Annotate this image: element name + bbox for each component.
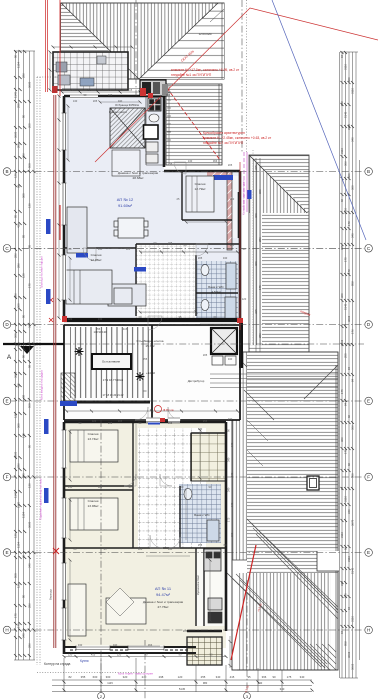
svg-text:360: 360 [347,173,351,178]
room labels [44,32,225,666]
svg-text:255: 255 [201,675,206,679]
blue label boxes left margin [44,219,160,503]
svg-text:360: 360 [254,213,258,218]
svg-text:F: F [6,475,9,480]
svg-text:3110: 3110 [347,556,351,562]
svg-text:340: 340 [78,643,83,647]
apartment 11 floor [64,422,226,665]
right margin smudges ap11 [227,429,235,537]
svg-text:175: 175 [287,675,292,679]
svg-text:255: 255 [168,162,173,166]
svg-text:96: 96 [347,462,351,466]
svg-text:95: 95 [28,244,32,248]
svg-text:255: 255 [344,353,348,358]
svg-text:1154: 1154 [22,512,26,518]
svg-text:5145: 5145 [344,111,348,118]
svg-text:120: 120 [126,247,131,251]
svg-text:176: 176 [351,329,355,334]
svg-text:286: 286 [28,643,32,648]
svg-text:958: 958 [340,101,344,106]
svg-text:елемент Н, +17.0м², сключено +: елемент Н, +17.0м², сключено +0.95, кв.2… [171,68,240,72]
red vertical regulation lines [45,0,47,92]
dark utility block above apartment [140,80,168,96]
svg-text:340: 340 [223,256,228,260]
svg-text:3110: 3110 [344,64,348,70]
svg-text:B: B [5,169,8,174]
svg-text:Подземен гараж контур на ниво: Подземен гараж контур на ниво [39,478,43,520]
svg-text:340: 340 [22,473,26,478]
svg-text:366: 366 [213,159,218,163]
svg-text:елемент Н, +2.45м², сключено +: елемент Н, +2.45м², сключено +0.63, кв.2… [203,136,272,140]
svg-text:Кулообразен архитектурен: Кулообразен архитектурен [203,131,245,135]
svg-text:360: 360 [351,473,355,478]
svg-text:3675: 3675 [351,519,355,526]
svg-text:205: 205 [28,123,32,128]
stair core [61,320,338,420]
svg-text:360: 360 [14,333,18,338]
svg-text:175: 175 [230,502,234,507]
svg-text:90: 90 [22,314,26,318]
svg-text:415: 415 [128,88,133,92]
svg-text:286: 286 [258,333,262,338]
svg-text:205: 205 [228,163,233,167]
svg-text:1145: 1145 [14,92,18,98]
svg-text:B: B [367,169,370,174]
svg-text:Баня с WC: Баня с WC [194,513,210,517]
svg-text:286: 286 [14,293,18,298]
svg-text:3110: 3110 [340,532,344,538]
svg-text:415: 415 [91,653,96,657]
svg-text:386: 386 [22,153,26,158]
red circle marker near stair [155,406,162,413]
svg-text:98: 98 [28,364,32,368]
svg-text:360: 360 [351,185,355,190]
svg-text:95: 95 [14,214,18,218]
svg-text:17.9 16.77/30см: 17.9 16.77/30см [103,378,124,382]
svg-text:360: 360 [254,261,258,266]
svg-text:340: 340 [258,681,263,685]
svg-text:255: 255 [143,357,148,361]
svg-text:120: 120 [68,317,73,321]
svg-text:175: 175 [28,283,32,288]
magenta boundary lines [243,152,245,212]
svg-text:3665: 3665 [28,81,32,88]
tower roof right hip triangle [139,3,224,79]
svg-text:300: 300 [106,675,111,679]
svg-text:Кота входна площадка: Кота входна площадка [40,370,44,400]
svg-text:94: 94 [347,606,351,610]
svg-text:340: 340 [168,547,173,551]
svg-text:13.74м²: 13.74м² [88,437,99,441]
svg-text:360: 360 [17,423,21,428]
svg-text:90: 90 [22,594,26,598]
svg-text:175: 175 [230,442,234,447]
svg-text:340: 340 [227,487,231,492]
svg-text:98: 98 [22,394,26,398]
svg-text:120: 120 [242,297,247,301]
furniture [66,96,222,636]
svg-text:340: 340 [340,581,344,586]
svg-text:90: 90 [22,354,26,358]
svg-text:3110: 3110 [347,124,351,130]
svg-text:Спалня: Спалня [88,432,99,436]
svg-text:Дневна с бокс и трапезария: Дневна с бокс и трапезария [143,600,184,604]
svg-text:340: 340 [28,563,32,568]
svg-text:5145: 5145 [351,567,355,574]
svg-text:82: 82 [68,675,72,679]
svg-text:178: 178 [347,221,351,226]
blue diagonal [272,0,366,240]
svg-text:130: 130 [98,317,103,321]
svg-text:E: E [5,399,8,404]
svg-text:12.79м²: 12.79м² [195,187,206,191]
svg-text:320: 320 [123,675,128,679]
svg-text:415: 415 [123,327,128,331]
svg-text:96: 96 [340,198,344,202]
svg-text:340: 340 [230,197,235,201]
svg-text:130: 130 [14,533,18,538]
svg-text:94: 94 [340,486,344,490]
svg-text:415: 415 [17,223,21,228]
roof notch [317,551,339,571]
svg-text:94.47м²: 94.47м² [156,592,171,597]
red roof annotation diagonals [95,8,378,162]
svg-text:415: 415 [230,675,235,679]
svg-text:340: 340 [227,457,231,462]
svg-text:205: 205 [108,421,113,425]
balcony strip right of bedroom [232,176,240,238]
svg-text:3663: 3663 [347,651,351,658]
svg-text:5145: 5145 [344,303,348,310]
svg-text:120: 120 [178,675,183,679]
svg-text:178: 178 [347,269,351,274]
right dimension chain [340,52,360,678]
svg-text:130: 130 [73,99,78,103]
big lower-right roof [227,352,339,670]
svg-text:255: 255 [17,103,21,108]
svg-text:415: 415 [17,343,21,348]
svg-text:Спалня: Спалня [91,253,102,257]
svg-text:гледайте №7 за ПУП/ПУП: гледайте №7 за ПУП/ПУП [203,141,244,145]
svg-text:340: 340 [351,137,355,142]
svg-text:340: 340 [280,687,285,691]
svg-text:360: 360 [258,189,262,194]
svg-text:Спалня: Спалня [88,499,99,503]
svg-text:286: 286 [28,603,32,608]
svg-text:120: 120 [117,653,122,657]
svg-text:205: 205 [118,419,123,423]
red curve bottom right [231,545,256,660]
door arcs [83,162,208,548]
svg-text:Дневна с бокс и трапезария: Дневна с бокс и трапезария [118,171,159,175]
svg-text:Граница на имот парцел: Граница на имот парцел [40,256,44,288]
svg-text:415: 415 [254,309,258,314]
svg-text:Отбранца 30/50см: Отбранца 30/50см [115,103,139,107]
left dimension chain [14,51,145,673]
svg-text:366: 366 [340,437,344,442]
svg-text:A: A [7,354,12,361]
svg-text:255: 255 [87,88,92,92]
svg-text:360: 360 [17,303,21,308]
svg-text:96: 96 [344,546,348,550]
svg-text:Веранда: Веранда [49,589,53,600]
svg-text:Кота терен - ниво сутерен: Кота терен - ниво сутерен [118,672,153,676]
svg-text:84: 84 [347,366,351,370]
svg-text:286: 286 [22,73,26,78]
magenta rotated notes left margin [39,256,44,520]
svg-text:340: 340 [28,323,32,328]
svg-text:286: 286 [17,263,21,268]
svg-text:175: 175 [230,472,234,477]
svg-text:E: E [367,550,370,555]
svg-text:27.76м²: 27.76м² [158,605,169,609]
corridor tiles ap11 [138,428,206,548]
svg-text:120: 120 [17,583,21,588]
svg-text:H: H [367,628,370,633]
svg-text:286: 286 [258,237,262,242]
svg-text:340: 340 [351,233,355,238]
svg-text:340: 340 [228,357,233,361]
kitchen ap11 [196,548,226,626]
tower roof ridges [61,3,218,79]
svg-text:120: 120 [14,173,18,178]
svg-text:3665: 3665 [14,451,18,458]
svg-text:205: 205 [230,243,235,247]
svg-text:175: 175 [22,433,26,438]
dim line above terrace [50,47,132,90]
svg-text:5145: 5145 [179,687,186,691]
small roof over kitchen wing [166,84,222,165]
walls [64,96,240,654]
svg-text:205: 205 [203,353,208,357]
svg-text:175: 175 [227,517,231,522]
svg-text:90: 90 [22,114,26,118]
svg-text:Кулообразен архитектурен: Кулообразен архитектурен [242,180,246,215]
svg-text:1154: 1154 [17,542,21,548]
svg-text:205: 205 [168,241,173,245]
svg-text:298: 298 [159,675,164,679]
bottom terrace tiles [187,637,222,665]
svg-text:84: 84 [351,378,355,382]
svg-text:340: 340 [216,675,221,679]
svg-text:415: 415 [254,165,258,170]
top-left terrace tiles [53,52,128,90]
svg-text:91.60м²: 91.60м² [118,203,133,208]
svg-text:3665: 3665 [14,131,18,138]
svg-text:120: 120 [14,413,18,418]
micro dimension texts [68,93,247,647]
svg-text:Кухня: Кухня [80,659,89,663]
extra interior dim segments [68,102,236,646]
svg-text:600: 600 [93,675,98,679]
svg-text:17 18 19 20 21 22: 17 18 19 20 21 22 [103,393,124,397]
terrace tiles ap11 mid [191,433,226,481]
svg-text:509: 509 [28,403,32,408]
svg-text:286: 286 [14,253,18,258]
svg-text:1145: 1145 [107,681,113,685]
svg-text:240: 240 [142,675,147,679]
svg-text:E: E [367,399,370,404]
svg-text:120: 120 [92,419,97,423]
svg-text:4.59м²: 4.59м² [211,290,220,294]
right roof upper strip [242,150,310,358]
svg-text:255: 255 [203,419,208,423]
svg-text:94: 94 [340,54,344,58]
grid bubbles [3,168,372,634]
svg-text:E: E [5,550,8,555]
svg-text:130: 130 [188,159,193,163]
bathroom ap12 tiles [196,261,238,322]
svg-text:958: 958 [351,281,355,286]
svg-text:175: 175 [340,389,344,394]
svg-text:90: 90 [14,54,18,58]
svg-text:Спално място: Спално място [109,110,128,114]
svg-text:3663: 3663 [351,663,355,670]
svg-text:Кухненски бокс: Кухненски бокс [196,574,200,594]
wall dimension strings [59,89,226,657]
red wall highlight right side ap12 [239,162,241,330]
svg-text:+14.50: +14.50 [146,371,155,375]
svg-text:509: 509 [28,163,32,168]
svg-text:Баня с WC: Баня с WC [208,285,224,289]
svg-text:Стълбищна клетка: Стълбищна клетка [136,339,163,343]
svg-text:175: 175 [344,449,348,454]
svg-text:98: 98 [17,184,21,188]
svg-text:H: H [5,628,8,633]
svg-text:Дистрибутор: Дистрибутор [188,379,205,383]
svg-text:15.7м²: 15.7м² [145,344,154,348]
svg-text:509: 509 [14,573,18,578]
roof hip/valley lines [227,352,338,668]
bathroom ap11 tiles [179,484,221,543]
svg-text:Спалня: Спалня [195,182,206,186]
svg-text:АП № 11: АП № 11 [155,586,172,591]
svg-text:12.04.02м: 12.04.02м [199,32,212,36]
red text annotations [171,49,311,317]
svg-text:130: 130 [28,483,32,488]
svg-text:90: 90 [28,444,32,448]
chimney [307,476,319,490]
bottom column bubbles [98,693,105,699]
svg-text:340: 340 [347,509,351,514]
svg-text:286: 286 [17,463,21,468]
svg-text:1145: 1145 [17,502,21,508]
svg-text:3663: 3663 [347,315,351,322]
window openings left wall [62,94,165,651]
svg-text:175: 175 [14,613,18,618]
svg-text:340: 340 [300,675,305,679]
svg-text:360: 360 [347,77,351,82]
elevator shaft [211,328,237,354]
svg-text:84: 84 [344,402,348,406]
svg-text:3663: 3663 [340,339,344,346]
svg-text:958: 958 [344,641,348,646]
svg-text:120: 120 [98,485,103,489]
svg-text:3110: 3110 [344,496,348,502]
svg-text:366: 366 [344,161,348,166]
svg-text:175: 175 [344,257,348,262]
svg-text:415: 415 [17,383,21,388]
svg-text:3110: 3110 [344,208,348,214]
svg-text:130: 130 [68,485,73,489]
svg-text:3665: 3665 [28,521,32,528]
svg-text:130 90 130: 130 90 130 [94,330,108,334]
svg-text:Остъкляване: Остъкляване [102,360,121,364]
apartment 12 floor [64,97,240,322]
svg-text:1154: 1154 [17,62,21,68]
svg-text:28.68м²: 28.68м² [133,176,144,180]
tower roof left hip triangle [61,3,110,52]
top tower roof [61,3,224,79]
svg-text:96: 96 [347,414,351,418]
svg-text:95: 95 [247,675,251,679]
svg-text:340: 340 [98,247,103,251]
svg-text:255: 255 [230,532,234,537]
svg-text:АП № 12: АП № 12 [117,197,134,202]
svg-text:366: 366 [148,643,153,647]
svg-text:366: 366 [351,425,355,430]
svg-text:980: 980 [203,681,208,685]
svg-text:1145: 1145 [14,492,18,498]
svg-text:94: 94 [340,630,344,634]
svg-text:60: 60 [22,554,26,558]
interior dim rows [66,252,238,411]
entry steps hatch [61,373,75,403]
svg-text:3110: 3110 [351,616,355,622]
svg-text:3665: 3665 [14,371,18,378]
svg-text:360: 360 [344,593,348,598]
inner dimension chain [256,158,260,352]
svg-text:175: 175 [17,623,21,628]
svg-text:205: 205 [93,99,98,103]
svg-text:130: 130 [168,421,173,425]
svg-text:255: 255 [198,543,203,547]
svg-text:340: 340 [228,417,233,421]
svg-text:120: 120 [138,547,143,551]
svg-text:гледайте №1 за ПУП/ПУП: гледайте №1 за ПУП/ПУП [171,73,212,77]
svg-text:95: 95 [22,234,26,238]
svg-text:366: 366 [262,675,267,679]
svg-text:130: 130 [28,203,32,208]
svg-text:366: 366 [166,93,171,97]
svg-text:355: 355 [81,675,86,679]
svg-text:Контур на сграда: Контур на сграда [44,662,70,666]
svg-text:365: 365 [340,245,344,250]
svg-text:340: 340 [22,633,26,638]
stair landing box [92,354,131,369]
svg-text:3110: 3110 [340,148,344,154]
bottom dimension lines [52,658,312,699]
svg-text:360: 360 [340,293,344,298]
red accents [62,93,243,422]
corridor tiles ap12 [136,244,196,322]
top-right mini hip [203,3,224,22]
lobby door gaps [146,418,180,423]
svg-text:340: 340 [113,643,118,647]
svg-text:120: 120 [68,653,73,657]
svg-text:12.05м²: 12.05м² [91,258,102,262]
svg-text:120: 120 [22,273,26,278]
svg-text:3110: 3110 [351,88,355,94]
svg-text:175: 175 [258,285,262,290]
svg-text:205: 205 [17,143,21,148]
svg-text:120: 120 [108,93,113,97]
svg-text:90: 90 [272,675,276,679]
svg-text:F: F [367,475,370,480]
svg-text:205: 205 [198,256,203,260]
svg-text:205: 205 [183,629,188,633]
svg-text:360: 360 [22,193,26,198]
